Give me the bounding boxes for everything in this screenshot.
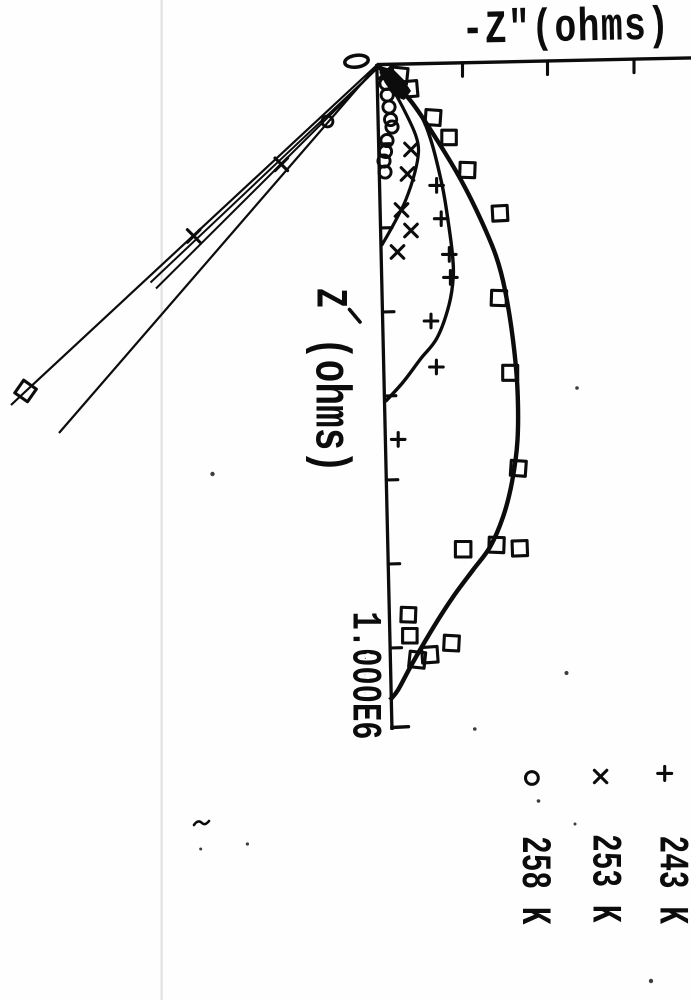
data point: square marker at (433,117.5) bbox=[425, 109, 441, 125]
data point: plus marker at (441.2,218.7) bbox=[434, 212, 448, 226]
data point: square marker at (498.9,298) bbox=[491, 290, 507, 306]
vertical axis end tick at 1.000E6 bbox=[392, 725, 409, 729]
data point: square marker at (510.2,372.8) bbox=[503, 365, 518, 380]
data point: square marker at (417.2,659.8) bbox=[409, 651, 426, 668]
fan line 4 (steep, through circle marker) bbox=[59, 65, 378, 434]
data point: x marker at (411,149.5) bbox=[405, 143, 418, 156]
data point: x marker at (193.7,236) bbox=[187, 230, 200, 243]
fan line to far square (low-frequency spike) bbox=[11, 65, 378, 406]
svg-text:258 K: 258 K bbox=[510, 836, 557, 925]
impedance arc small (258 K) bbox=[380, 68, 419, 246]
zero glyph dot covers bbox=[365, 653, 371, 659]
svg-text:-Z″(ohms): -Z″(ohms) bbox=[461, 0, 671, 57]
data point: circle marker at (531.9,778) bbox=[526, 772, 539, 785]
data point: plus marker at (450.4,277.4) bbox=[444, 271, 458, 285]
fan line 3 (short) bbox=[156, 67, 379, 289]
small scan scribble bbox=[194, 821, 209, 825]
data point: plus marker at (398.2,439.4) bbox=[391, 433, 405, 447]
data point: plus marker at (431,321) bbox=[424, 314, 438, 328]
data point: circle marker at (387,140.5) bbox=[381, 134, 393, 146]
data point: square marker at (429.9,654.8) bbox=[422, 646, 439, 663]
fan line 2 (short) bbox=[151, 67, 380, 283]
data point: x marker at (411,230.5) bbox=[405, 224, 418, 237]
data point: circle marker at (385.5,151.5) bbox=[379, 145, 391, 157]
data point: x marker at (397.5,252) bbox=[391, 246, 404, 259]
impedance arc large (243 K) bbox=[379, 67, 518, 700]
data point: square marker at (449,137.5) bbox=[442, 130, 457, 145]
data point: square marker at (409.9,635.8) bbox=[403, 629, 418, 644]
data point: square marker at (409.5,89) bbox=[401, 81, 418, 98]
data point: square marker at (496.5,544.9) bbox=[489, 537, 505, 553]
data point: x marker at (385.6,72.3) bbox=[379, 66, 392, 79]
vertical axis (Z axis) bbox=[377, 64, 392, 730]
data point: circle marker at (384,161) bbox=[378, 155, 390, 167]
data point: x marker at (401.5,210) bbox=[395, 204, 408, 217]
svg-text:1.000E6: 1.000E6 bbox=[341, 612, 388, 740]
data point: plus marker at (449.3,254.4) bbox=[443, 248, 457, 262]
data point: square marker at (463.2,549.3) bbox=[455, 542, 471, 558]
data point: circle marker at (389,107) bbox=[383, 101, 395, 113]
data point: circle marker at (387.2,95) bbox=[381, 89, 393, 101]
data point: circle marker at (386,83.5) bbox=[380, 77, 392, 89]
data point: square marker at (467.4,170) bbox=[460, 162, 476, 178]
data point: circle marker at (390.6,119.5) bbox=[385, 113, 397, 125]
prime mark of Z label bbox=[350, 310, 361, 323]
data point: square marker at (451.5,643.1) bbox=[444, 635, 460, 651]
origin label 0 (rotated) bbox=[344, 54, 369, 69]
data point: plus marker at (664.7,773.4) bbox=[658, 766, 672, 780]
data point: plus marker at (436.4,367) bbox=[430, 360, 444, 374]
impedance arc medium (253 K) bbox=[380, 68, 454, 402]
data point: square marker at (25.5,391) bbox=[15, 380, 37, 402]
data point: square marker at (518.3,468.3) bbox=[510, 460, 526, 476]
data point: square marker at (519.8,548.3) bbox=[512, 541, 528, 557]
data point: plus marker at (436.6,185.4) bbox=[430, 179, 444, 193]
horizontal axis (-Z axis) bbox=[377, 58, 691, 65]
data point: x marker at (600.6,776.5) bbox=[594, 770, 606, 782]
svg-text:Z: Z bbox=[304, 288, 355, 308]
svg-text:(ohms): (ohms) bbox=[301, 337, 358, 473]
data point: circle marker at (327.5,121.5) bbox=[322, 116, 333, 127]
data point: x marker at (281.3,164.3) bbox=[275, 158, 288, 171]
data point: x marker at (407.5,174) bbox=[401, 168, 414, 181]
svg-text:243 K: 243 K bbox=[648, 836, 691, 925]
data point: square marker at (408.3,614.8) bbox=[401, 607, 416, 622]
horizontal axis ticks bbox=[463, 59, 635, 76]
data point: square marker at (500,213.3) bbox=[492, 205, 508, 221]
data point: circle marker at (392,127) bbox=[386, 121, 398, 133]
vertical axis ticks bbox=[379, 144, 402, 648]
dense overlap blob near origin bbox=[380, 66, 412, 100]
svg-text:253 K: 253 K bbox=[581, 834, 628, 923]
data point: square marker at (399.5,75.5) bbox=[391, 67, 408, 84]
scan artifact: faint vertical gray line bbox=[161, 0, 163, 1000]
data point: circle marker at (385,172) bbox=[379, 166, 391, 178]
